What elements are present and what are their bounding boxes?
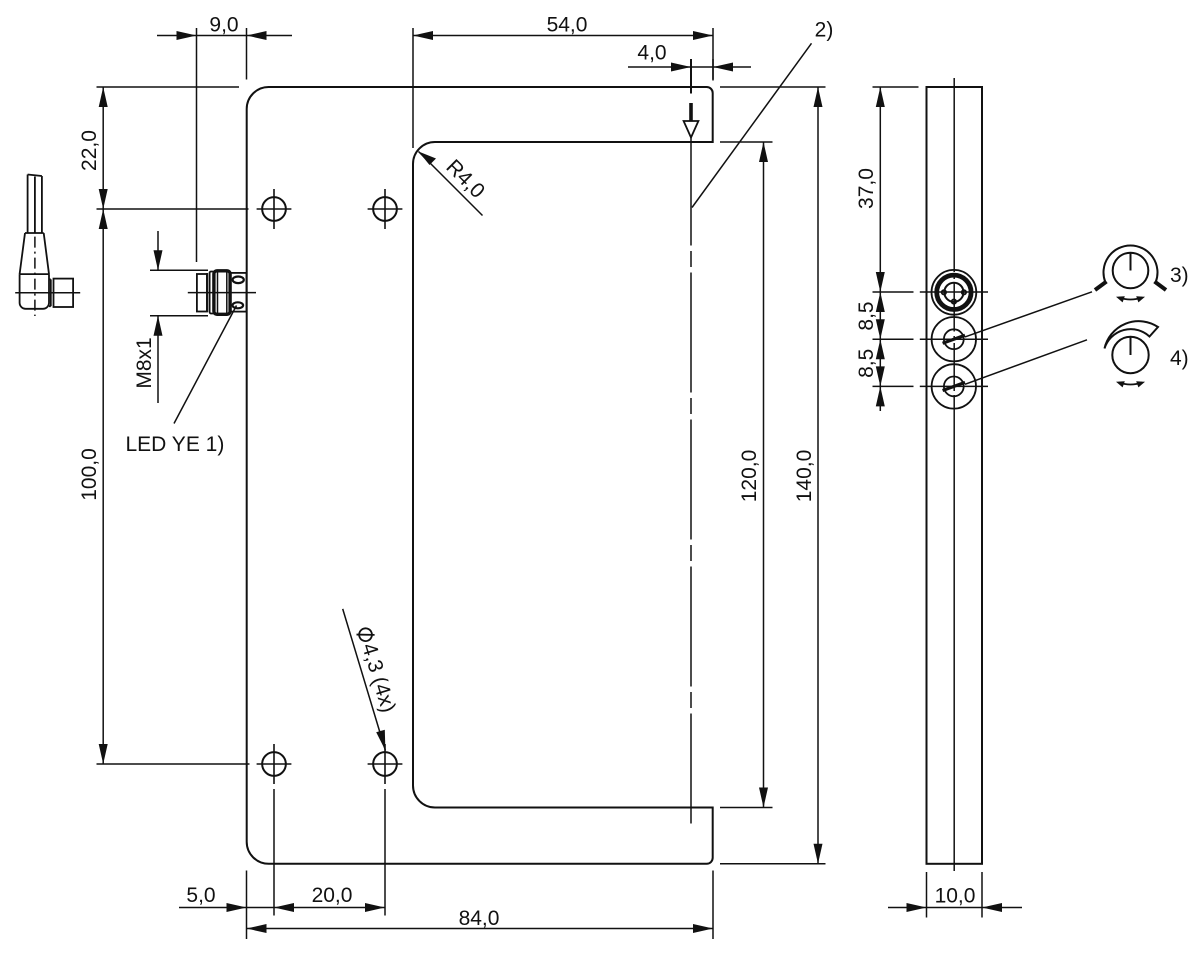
knob K3 potentiometer bbox=[932, 364, 976, 408]
knob K2 potentiometer bbox=[932, 317, 976, 361]
dim 120,0 bbox=[720, 142, 773, 808]
svg-text:4,0: 4,0 bbox=[637, 42, 666, 65]
dim 10,0 bbox=[888, 872, 1022, 918]
hole H3 bottom-left bbox=[257, 744, 292, 784]
icon 4 rotary knob with arc bbox=[1105, 321, 1159, 387]
dim M8x1 bbox=[150, 231, 208, 403]
leader knob3 to icon4 bbox=[965, 340, 1087, 385]
svg-text:M8x1: M8x1 bbox=[133, 337, 156, 388]
svg-text:10,0: 10,0 bbox=[935, 885, 976, 908]
svg-text:LED YE 1): LED YE 1) bbox=[126, 433, 225, 456]
svg-text:37,0: 37,0 bbox=[855, 168, 878, 209]
svg-text:84,0: 84,0 bbox=[459, 907, 500, 930]
hole H1 top-left bbox=[257, 189, 292, 229]
leader 2) bbox=[692, 43, 812, 207]
dim 84,0 bbox=[247, 924, 714, 933]
knob row line 3 bbox=[873, 385, 989, 387]
dim 4,0 bbox=[628, 59, 751, 80]
beam centerline bbox=[690, 59, 692, 94]
main view outline bbox=[247, 87, 713, 864]
knob K1 button bbox=[932, 270, 977, 315]
svg-text:5,0: 5,0 bbox=[186, 884, 215, 907]
knob row line 1 bbox=[873, 291, 989, 293]
svg-text:22,0: 22,0 bbox=[78, 130, 101, 171]
M8 connector on part bbox=[188, 271, 256, 315]
svg-text:120,0: 120,0 bbox=[738, 450, 761, 503]
svg-text:100,0: 100,0 bbox=[78, 448, 101, 501]
svg-text:140,0: 140,0 bbox=[793, 450, 816, 503]
leader knob2 to icon3 bbox=[965, 292, 1092, 337]
dim 5,0 / 20,0 bbox=[179, 789, 713, 939]
hole H4 bottom-right bbox=[368, 744, 403, 784]
svg-text:4): 4) bbox=[1170, 347, 1189, 370]
svg-text:2): 2) bbox=[815, 19, 834, 42]
side view body bbox=[927, 87, 983, 864]
leader LED bbox=[174, 306, 237, 424]
dim 37,0 / 8,5 / 8,5 bbox=[873, 87, 919, 411]
beam marker arrow bbox=[684, 103, 699, 138]
label dia 4,3 (4x) bbox=[352, 625, 399, 715]
svg-text:8,5: 8,5 bbox=[855, 349, 878, 378]
knob row line 2 bbox=[873, 338, 989, 340]
dim 54,0 bbox=[413, 28, 713, 148]
dim 9,0 bbox=[157, 28, 292, 262]
dim 22,0 / 100,0 bbox=[97, 87, 250, 764]
cable plug icon bbox=[15, 175, 80, 317]
icon 3 rotary knob bbox=[1095, 245, 1166, 302]
leader R4,0 bbox=[419, 152, 483, 216]
leader dia 4,3 bbox=[343, 609, 386, 751]
svg-text:20,0: 20,0 bbox=[312, 884, 353, 907]
svg-text:3): 3) bbox=[1170, 264, 1189, 287]
svg-text:9,0: 9,0 bbox=[209, 14, 238, 37]
hole H2 top-right bbox=[368, 189, 403, 229]
side view centerline bbox=[953, 78, 955, 224]
dim 140,0 bbox=[720, 87, 826, 864]
svg-text:8,5: 8,5 bbox=[855, 301, 878, 330]
svg-text:54,0: 54,0 bbox=[547, 14, 588, 37]
